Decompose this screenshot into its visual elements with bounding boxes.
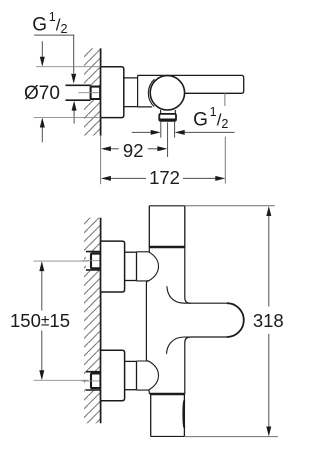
outlet neck under knob (top view) bbox=[161, 110, 176, 114]
outlet collar bottom band bbox=[160, 118, 176, 120]
wall face line (top view) bbox=[100, 48, 102, 135]
bottom pipe thick right edge bbox=[182, 401, 185, 428]
outlet pipe stub (top view) bbox=[161, 121, 175, 138]
G1/2 outlet dim line right segment bbox=[184, 131, 235, 133]
pipe center line (top view) bbox=[78, 92, 99, 94]
Ø70 extension line bottom bbox=[34, 117, 101, 119]
172 dim line right segment with right arrowhead bbox=[183, 177, 216, 179]
inlet pipe in wall (top view) bbox=[66, 85, 91, 100]
92 dim line right segment with right arrowhead bbox=[148, 148, 159, 150]
outlet center line (top view) bbox=[167, 122, 169, 157]
neck between flange and body (top view) bbox=[124, 78, 138, 107]
body right edge and handle pill bbox=[185, 247, 244, 394]
bottom union nut bbox=[125, 361, 137, 389]
wall hatching (lower view) bbox=[84, 218, 101, 424]
spout bar with rounded end (top view) bbox=[138, 75, 244, 93]
318 dim upper segment with up arrowhead bbox=[268, 215, 270, 306]
G1/2 leader arrowhead down bbox=[71, 74, 76, 84]
150 dim lower segment with down arrowhead bbox=[41, 331, 43, 371]
bottom union pipe in wall bbox=[86, 372, 101, 390]
extension line at x=225.5 (172 dim / outlet) bbox=[224, 93, 226, 183]
318 dim lower segment with down arrowhead bbox=[268, 334, 270, 427]
top union pipe in wall bbox=[86, 252, 101, 270]
wall extension line below wall (for 92/172 dims) bbox=[100, 136, 102, 185]
bottom union escutcheon bbox=[101, 350, 125, 400]
top union center line bbox=[82, 260, 100, 262]
Ø70 upper arrowhead down bbox=[40, 57, 45, 67]
G1/2 pipe lower arrowhead up bbox=[72, 101, 77, 111]
escutcheon flange (top view) bbox=[101, 67, 124, 118]
bottom union center line bbox=[82, 380, 100, 382]
top union escutcheon bbox=[101, 241, 125, 292]
bottom joint line bbox=[150, 393, 185, 396]
body left edge bbox=[146, 247, 149, 394]
svg-text:150±15: 150±15 bbox=[10, 310, 70, 331]
svg-text:Ø70: Ø70 bbox=[24, 83, 60, 104]
G1/2 leader line (top-left) bbox=[34, 35, 74, 73]
150 extension line top bbox=[34, 260, 89, 262]
G1/2 outlet right arrowhead left bbox=[175, 130, 185, 135]
knob outer-left arc (top view) bbox=[148, 79, 154, 106]
bottom union thread box bbox=[91, 373, 101, 388]
92 dim line left segment with left arrowhead bbox=[110, 148, 119, 150]
top shower pipe of body bbox=[149, 206, 185, 247]
thread box in wall (top view) bbox=[91, 87, 101, 99]
thermostat knob circle (top view) bbox=[150, 76, 184, 110]
wall face line (lower view) bbox=[100, 218, 102, 424]
outlet collar (top view) bbox=[159, 114, 176, 121]
318 extension line top bbox=[185, 205, 275, 207]
bottom spout pipe of body bbox=[151, 394, 185, 436]
handle pill cap thick arc bbox=[227, 303, 244, 337]
Ø70 dim lower line bbox=[41, 127, 43, 142]
G1/2 outlet dim line left segment bbox=[132, 131, 152, 133]
svg-text:172: 172 bbox=[149, 167, 180, 188]
150 extension line bottom bbox=[34, 379, 89, 381]
top pipe top edge bbox=[149, 205, 185, 207]
G1/2 outlet left arrowhead right bbox=[151, 130, 161, 135]
bottom union dome (check valve) bbox=[137, 361, 159, 390]
bottom pipe bottom edge bbox=[151, 435, 185, 437]
G1/2 pipe lower arrow line bbox=[73, 110, 75, 123]
svg-text:92: 92 bbox=[123, 140, 144, 161]
upper skirt curve bbox=[167, 286, 191, 303]
172 dim line left segment with left arrowhead bbox=[110, 177, 146, 179]
318 extension line bottom bbox=[184, 436, 278, 438]
Ø70 lower arrowhead up bbox=[40, 118, 45, 128]
body block (top view) bbox=[138, 75, 152, 107]
wall hatching (top view) bbox=[84, 48, 101, 135]
Ø70 dim upper line bbox=[41, 41, 43, 57]
svg-text:318: 318 bbox=[253, 310, 284, 331]
150 dim upper segment with up arrowhead bbox=[41, 271, 43, 311]
Ø70 extension line top bbox=[36, 66, 100, 68]
top union dome (check valve) bbox=[137, 252, 159, 281]
top joint line bbox=[149, 246, 185, 249]
top union thread box bbox=[91, 254, 101, 269]
lower skirt curve bbox=[167, 337, 192, 354]
top union nut bbox=[125, 252, 137, 280]
